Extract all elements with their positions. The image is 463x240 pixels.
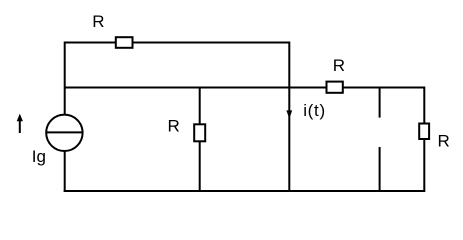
wire: middle horizontal bus from left branch to node B: [65, 87, 290, 89]
wire: right horizontal from R3 to right corner, down right vertical to R4: [343, 88, 425, 124]
wire: middle branch vertical from R2 down to bottom bus: [199, 141, 201, 191]
svg-text:R: R: [333, 56, 345, 75]
svg-text:R: R: [92, 12, 104, 31]
wire: open-gap branch lower segment: [379, 147, 381, 191]
svg-text:i(t): i(t): [303, 101, 326, 120]
wire: bottom bus from source branch to right branch: [64, 190, 426, 192]
wire: open-gap branch upper segment: [379, 88, 381, 118]
resistor R3 (right horizontal): [327, 82, 343, 93]
resistor R4 (right vertical): [419, 124, 429, 140]
resistor R2 (middle vertical): [194, 124, 205, 141]
svg-text:Ig: Ig: [32, 147, 46, 166]
svg-text:R: R: [167, 117, 179, 136]
wire: top horizontal from R1 to node B corner, down node B vertical: [133, 43, 290, 192]
wire: right vertical from R4 down to bottom bus: [423, 139, 425, 191]
wire: left vertical from source bottom to bottom bus: [64, 151, 66, 192]
resistor R1 (top horizontal): [116, 37, 133, 48]
wire: top-left vertical + top horizontal from current source to R1: [65, 43, 116, 115]
svg-text:R: R: [437, 131, 449, 150]
arrow: i(t) current direction (down) on node B branch: [286, 110, 292, 118]
current source Ig (circle with diameter line): [46, 115, 82, 151]
wire: right horizontal from node B to R3: [289, 87, 326, 89]
arrow: current direction (up) beside source: [19, 120, 21, 134]
wire: middle branch vertical from bus down to R2: [199, 88, 201, 125]
